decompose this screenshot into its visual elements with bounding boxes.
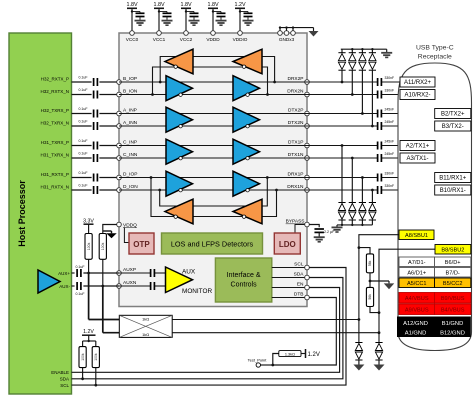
svg-text:OTP: OTP <box>133 240 150 249</box>
svg-text:H32_RXTX_P: H32_RXTX_P <box>41 76 69 81</box>
ESD diode pair top 3 <box>361 49 363 53</box>
svg-text:A_INP: A_INP <box>123 108 137 114</box>
pin B_ION <box>117 92 122 97</box>
ESD diode pair bottom 1 <box>341 220 343 225</box>
wire A3/TX1- line <box>307 157 378 159</box>
resistor R5 1.3k (DTB pullup) <box>279 351 301 357</box>
pin DRX1P <box>305 175 310 180</box>
svg-text:DRX2P: DRX2P <box>288 76 304 82</box>
svg-text:EN: EN <box>297 282 304 288</box>
wire test point to pullup <box>273 354 279 366</box>
wire VDDQ to resistor R2 <box>103 225 117 234</box>
wire crossbar out2 to SBU2 <box>172 332 379 334</box>
buffer host AUX driver (blue) <box>38 270 60 293</box>
svg-text:BYPASS: BYPASS <box>286 219 305 225</box>
pin DRX1N <box>305 188 310 193</box>
svg-text:0.1uF: 0.1uF <box>79 171 88 175</box>
ESD diode pair SBU1 <box>355 342 362 344</box>
wire orange bottom P path <box>151 178 277 217</box>
wire Interface to EN pin <box>272 287 307 289</box>
block LDO <box>274 233 300 254</box>
svg-text:330nF: 330nF <box>385 184 395 188</box>
capacitor internal AUXN <box>150 282 152 290</box>
svg-text:H31_RXTX_P: H31_RXTX_P <box>41 172 69 177</box>
svg-text:245nF: 245nF <box>385 152 395 156</box>
pin DTX1P <box>305 143 310 148</box>
svg-text:B6/D+: B6/D+ <box>445 260 461 266</box>
svg-text:VCC1: VCC1 <box>153 37 166 42</box>
pin EN <box>305 285 310 290</box>
buffer blue forward row4 col2 <box>233 171 260 196</box>
svg-text:330nF: 330nF <box>385 76 395 80</box>
resistor R6 100k (SDA pullup) <box>82 341 84 347</box>
svg-text:B1/GND: B1/GND <box>442 321 464 327</box>
svg-text:B2/TX2+: B2/TX2+ <box>441 112 465 118</box>
svg-text:SCL: SCL <box>60 383 69 388</box>
wire R3/R4 midpoint to ground <box>369 273 371 288</box>
pin DTX2P <box>305 111 310 116</box>
wire DTB loop <box>273 298 337 366</box>
capacitor 0.1uF on A_INP line <box>93 110 95 118</box>
wire EN loop <box>72 288 340 373</box>
wire H31_TXRX_N to C_INN <box>72 157 92 159</box>
svg-text:B9/VBUS: B9/VBUS <box>441 296 465 302</box>
crossbar resistor network 1k/1k (AUX to SBU) <box>119 315 172 337</box>
receptacle pin box B8/SBU2 <box>435 245 471 255</box>
wire R1 to AUXP junction and down to SBU crossbar <box>88 259 90 273</box>
svg-text:245nF: 245nF <box>385 107 395 111</box>
wire B10/RX1- line <box>307 189 378 191</box>
svg-text:A7/D1-: A7/D1- <box>408 260 426 266</box>
block Interface & Controls <box>215 258 271 302</box>
wire ESD bottom 4 to DRX1N <box>371 190 373 203</box>
svg-text:A2/TX1+: A2/TX1+ <box>406 144 430 150</box>
svg-text:B8/SBU2: B8/SBU2 <box>441 247 464 253</box>
redriver chip U1 body <box>119 33 307 307</box>
svg-text:0.1uF: 0.1uF <box>79 119 88 123</box>
svg-text:56k: 56k <box>368 294 372 300</box>
ground under VCC2 cap <box>189 20 200 22</box>
wire internal D_IOP channel <box>119 177 307 179</box>
wire ESD bottom 1 to DTX1P <box>341 146 343 203</box>
ESD diode pair bottom 2 <box>351 220 353 225</box>
capacitor 0.1uF on C_INN line <box>93 154 95 162</box>
capacitor 245nF on A2/TX1+ <box>377 142 379 150</box>
wire internal D_ION channel <box>119 189 307 191</box>
capacitor 0.1uF on B_IOP line <box>93 78 95 86</box>
wire Interface to SDA pin <box>272 277 307 279</box>
pin DTX2N <box>305 124 310 129</box>
capacitor 0.1uF on D_IOP line <box>93 174 95 182</box>
capacitor 245nF on B2/TX2+ <box>377 110 379 118</box>
wire Interface to SCL pin <box>272 267 307 269</box>
svg-text:AUX+: AUX+ <box>58 271 70 276</box>
wire H32_RXTX_P to B_IOP <box>72 81 92 83</box>
wire A10/RX2- line <box>307 94 378 96</box>
svg-text:AUX: AUX <box>182 268 196 275</box>
svg-text:A11/RX2+: A11/RX2+ <box>404 80 432 86</box>
svg-text:1.3kΩ: 1.3kΩ <box>285 353 295 357</box>
wire GNDx3 bus to ground <box>279 27 314 29</box>
pin C_INN <box>117 156 122 161</box>
decoupling capacitor on VDDIO <box>240 11 248 13</box>
receptacle pin box B3/TX2- <box>435 121 471 131</box>
wire orange top N path <box>153 67 268 95</box>
buffer AUX monitor (yellow) <box>166 267 193 293</box>
wire 1.8V rail to VCC2 pin <box>185 8 187 31</box>
svg-text:100k: 100k <box>87 242 91 250</box>
svg-text:B4/VBUS: B4/VBUS <box>441 307 465 313</box>
svg-text:DTB: DTB <box>294 292 304 298</box>
svg-text:H31_TXRX_P: H31_TXRX_P <box>41 140 69 145</box>
svg-text:SDA: SDA <box>294 272 305 278</box>
svg-text:330nF: 330nF <box>385 171 395 175</box>
ESD diode pair bottom 3 <box>361 220 363 225</box>
svg-text:SDA: SDA <box>60 377 69 382</box>
resistor R4 56k (SBU2 to gnd) <box>366 287 373 306</box>
ESD diode pair bottom 4 <box>371 220 373 225</box>
svg-text:A8/SBU1: A8/SBU1 <box>405 233 428 239</box>
block OTP <box>129 233 154 254</box>
GNDx3 pins <box>278 31 283 36</box>
svg-text:0.1uF: 0.1uF <box>79 151 88 155</box>
pin AUXN <box>117 284 122 289</box>
svg-text:LDO: LDO <box>279 240 296 249</box>
wire R6 to SDA <box>82 368 84 379</box>
pin DTB <box>305 295 310 300</box>
wire H31_RXTX_N to D_ION <box>72 189 92 191</box>
svg-text:1kΩ: 1kΩ <box>142 332 149 337</box>
wire H32_TXRX_N to A_INN <box>72 125 92 127</box>
receptacle pin box B5/CC2 <box>435 278 471 288</box>
svg-text:Host Processor: Host Processor <box>17 180 27 247</box>
svg-text:0.1uF: 0.1uF <box>76 265 85 269</box>
svg-text:1.8V: 1.8V <box>207 2 218 8</box>
capacitor internal AUXP <box>150 269 152 277</box>
resistor R1 100k (AUXP pullup) <box>85 234 92 260</box>
wire orange bottom N path <box>160 178 268 207</box>
receptacle pin box A3/TX1- <box>400 153 435 163</box>
svg-text:1.8V: 1.8V <box>126 2 137 8</box>
receptacle pin box A7/D1- <box>399 257 435 267</box>
wire LDO to BYPASS <box>295 225 307 234</box>
svg-text:GNDx3: GNDx3 <box>279 37 295 42</box>
ground under VDDIO cap <box>243 20 254 22</box>
ground for top ESD bank <box>381 52 392 54</box>
ESD diode pair SBU2 <box>375 342 382 344</box>
wire A11/RX2+ line <box>307 81 378 83</box>
wire Interface to DTB pin <box>272 297 307 299</box>
svg-text:DRX1N: DRX1N <box>287 184 304 190</box>
capacitor 2.2uF on BYPASS <box>314 228 324 230</box>
wire SDA loop <box>72 278 343 379</box>
wire SCL loop <box>72 268 347 386</box>
pin A_INN <box>117 124 122 129</box>
ground arrow under SBU2 diode <box>374 365 385 371</box>
receptacle pin box A11/RX2+ <box>400 77 435 87</box>
svg-text:B7/D-: B7/D- <box>445 270 459 276</box>
wire 1.8V rail to VCC1 pin <box>158 8 160 31</box>
svg-text:H32_TXRX_P: H32_TXRX_P <box>41 108 69 113</box>
power rail 1.2V at test point <box>301 353 306 355</box>
capacitor 0.1uF AUX+ <box>76 269 78 277</box>
wire A2/TX1+ line <box>307 145 378 147</box>
wire ESD top 3 to DTX2P <box>361 70 363 113</box>
svg-text:DRX1P: DRX1P <box>288 172 304 178</box>
svg-text:1.8V: 1.8V <box>180 2 191 8</box>
block LOS and LFPS Detectors <box>162 233 263 254</box>
svg-text:VCC2: VCC2 <box>180 37 193 42</box>
receptacle pin box A10/RX2- <box>400 90 435 100</box>
pin VCC2 <box>184 31 189 36</box>
buffer blue forward row2 col2 <box>233 107 260 132</box>
receptacle pin box B9/VBUS <box>435 293 471 304</box>
receptacle pin box A6/D1+ <box>399 268 435 278</box>
svg-text:H32_RXTX_N: H32_RXTX_N <box>40 89 69 94</box>
svg-text:A12/GND: A12/GND <box>403 321 428 327</box>
svg-text:Controls: Controls <box>231 282 258 289</box>
wire H31_TXRX_P to C_INP <box>72 145 92 147</box>
pin D_IOP <box>117 175 122 180</box>
receptacle pin box A8/SBU1 <box>399 230 434 240</box>
buffer blue forward row1 col1 <box>166 76 193 101</box>
svg-text:56k: 56k <box>368 260 372 266</box>
power arrow from VDDQ <box>103 230 112 232</box>
svg-text:B10/RX1-: B10/RX1- <box>440 188 466 194</box>
svg-text:B11/RX1+: B11/RX1+ <box>439 176 467 182</box>
pin D_ION <box>117 188 122 193</box>
capacitor 0.1uF on B_ION line <box>93 91 95 99</box>
resistor R7 100k (SCL pullup) <box>95 341 97 347</box>
wire VDDQ to OTP <box>124 228 129 243</box>
svg-text:DTX2N: DTX2N <box>288 120 304 126</box>
pin BYPASS <box>305 222 310 227</box>
decoupling capacitor on VCC1 <box>159 11 167 13</box>
svg-text:ENABLE: ENABLE <box>51 370 69 375</box>
wire orange top P path <box>160 57 274 83</box>
svg-text:A4/VBUS: A4/VBUS <box>405 296 429 302</box>
wire AUXN internal <box>119 285 151 287</box>
svg-text:VDDQ: VDDQ <box>123 222 137 228</box>
capacitor 330nF on B11/RX1+ <box>377 174 379 182</box>
svg-text:B3/TX2-: B3/TX2- <box>442 124 464 130</box>
pin SDA <box>305 275 310 280</box>
ground for GNDx3 <box>309 31 319 37</box>
buffer orange reverse top 1 <box>165 49 193 74</box>
buffer blue forward row2 col1 <box>166 107 193 132</box>
pin VCC1 <box>157 31 162 36</box>
receptacle pin box B10/RX1- <box>435 185 471 195</box>
ESD diode pair top 1 <box>341 49 343 53</box>
pin DRX2N <box>305 92 310 97</box>
svg-text:B12/GND: B12/GND <box>440 330 465 336</box>
svg-text:100k: 100k <box>101 242 105 250</box>
wire 3.3V to resistor R1 <box>88 224 90 233</box>
pin DTX1N <box>305 156 310 161</box>
receptacle pin box B4/VBUS <box>435 304 471 315</box>
ground arrow for SBU divider <box>384 283 395 289</box>
wire ESD top 1 to DRX2P <box>341 70 343 82</box>
wire H32_RXTX_N to B_ION <box>72 94 92 96</box>
ESD diode pair top 2 <box>351 49 353 53</box>
svg-text:1.2V: 1.2V <box>83 329 94 335</box>
wire H31_RXTX_P to D_IOP <box>72 177 92 179</box>
pin AUXP <box>117 271 122 276</box>
capacitor 330nF on A11/RX2+ <box>377 78 379 86</box>
wire internal B_ION channel <box>119 94 307 96</box>
test point on DTB <box>261 364 273 366</box>
svg-text:A9/VBUS: A9/VBUS <box>405 307 429 313</box>
capacitor 245nF on A3/TX1- <box>377 154 379 162</box>
wire R2 to AUXN junction and down to SBU crossbar <box>102 259 104 286</box>
svg-text:0.1uF: 0.1uF <box>79 107 88 111</box>
wire internal C_INP channel <box>119 145 307 147</box>
capacitor 330nF on B10/RX1- <box>377 186 379 194</box>
wire crossbar out1 to SBU1 <box>172 319 359 321</box>
pin A_INP <box>117 111 122 116</box>
decoupling capacitor on VDDD <box>213 11 221 13</box>
wire SBU1 net <box>359 235 399 343</box>
svg-text:AUX-: AUX- <box>59 284 70 289</box>
svg-text:Receptacle: Receptacle <box>418 54 452 61</box>
svg-text:USB Type-C: USB Type-C <box>416 45 454 52</box>
wire H32_TXRX_P to A_INP <box>72 113 92 115</box>
svg-text:100k: 100k <box>81 353 85 361</box>
svg-text:LOS and LFPS Detectors: LOS and LFPS Detectors <box>171 239 254 248</box>
svg-text:B_IOP: B_IOP <box>123 76 137 82</box>
pin VDDQ <box>117 222 122 227</box>
pin DRX2P <box>305 80 310 85</box>
wire B2/TX2+ line <box>307 113 378 115</box>
buffer orange reverse bottom 2 <box>233 199 262 224</box>
svg-text:330nF: 330nF <box>385 88 395 92</box>
svg-text:D_IOP: D_IOP <box>123 172 137 178</box>
svg-text:AUXN: AUXN <box>123 280 137 286</box>
receptacle pin box A4/VBUS <box>399 293 435 304</box>
svg-text:AUXP: AUXP <box>123 267 136 273</box>
buffer blue forward row4 col1 <box>166 171 193 196</box>
svg-text:DTX2P: DTX2P <box>288 108 303 114</box>
svg-text:A_INN: A_INN <box>123 120 138 126</box>
ESD diode bank bottom bus <box>337 224 372 226</box>
svg-text:A10/RX2-: A10/RX2- <box>404 93 430 99</box>
capacitor 0.1uF on D_ION line <box>93 186 95 194</box>
svg-text:H32_TXRX_N: H32_TXRX_N <box>40 120 69 125</box>
svg-text:DTX1P: DTX1P <box>288 140 303 146</box>
receptacle pin box B2/TX2+ <box>435 109 471 119</box>
resistor R2 100k (AUXN pullup) <box>99 234 106 260</box>
wire 1.8V rail to VCC0 pin <box>131 8 133 31</box>
buffer blue forward row1 col2 <box>233 76 260 101</box>
svg-text:0.1uF: 0.1uF <box>76 292 85 296</box>
buffer blue forward row3 col1 <box>166 139 193 164</box>
svg-text:1.2V: 1.2V <box>234 2 245 8</box>
wire ESD top 4 to DTX2N <box>371 70 373 126</box>
svg-text:0.1uF: 0.1uF <box>79 75 88 79</box>
svg-text:0.1uF: 0.1uF <box>79 88 88 92</box>
receptacle GND pin block <box>397 317 471 338</box>
receptacle pin box B11/RX1+ <box>435 173 471 183</box>
wire host AUX- to AUXN <box>72 285 75 287</box>
ground arrow under SBU1 diode <box>353 365 364 371</box>
svg-text:A5/CC1: A5/CC1 <box>407 281 427 287</box>
svg-text:DRX2N: DRX2N <box>287 89 304 95</box>
svg-text:B_ION: B_ION <box>123 89 138 95</box>
svg-text:D_ION: D_ION <box>123 184 138 190</box>
pin B_IOP <box>117 80 122 85</box>
svg-text:C_INN: C_INN <box>123 152 138 158</box>
decoupling capacitor on VCC0 <box>132 11 140 13</box>
svg-text:DTX1N: DTX1N <box>288 152 304 158</box>
USB Type-C receptacle outline <box>398 63 472 351</box>
pin VCC0 <box>130 31 135 36</box>
wire internal C_INN channel <box>119 157 307 159</box>
svg-text:Interface &: Interface & <box>227 272 261 279</box>
capacitor 0.1uF on A_INN line <box>93 122 95 130</box>
svg-text:A3/TX1-: A3/TX1- <box>406 156 428 162</box>
wire ESD bottom 3 to DRX1P <box>361 178 363 203</box>
decoupling capacitor on VCC2 <box>186 11 194 13</box>
svg-text:VDDIO: VDDIO <box>233 37 248 42</box>
wire 1.2V rail to VDDIO pin <box>239 8 241 31</box>
svg-text:B5/CC2: B5/CC2 <box>443 281 463 287</box>
pin C_INP <box>117 143 122 148</box>
wire B3/TX2- line <box>307 125 378 127</box>
svg-text:245nF: 245nF <box>385 139 395 143</box>
resistor R3 56k (SBU1 to gnd) <box>359 248 370 254</box>
receptacle pin box B7/D- <box>435 268 471 278</box>
svg-text:SCL: SCL <box>294 262 304 268</box>
svg-text:245nF: 245nF <box>385 120 395 124</box>
wire 1.8V rail to VDDD pin <box>212 8 214 31</box>
receptacle pin box A5/CC1 <box>399 278 435 288</box>
wire host AUX+ to AUXP <box>72 272 75 274</box>
pin VDDIO <box>238 31 243 36</box>
ESD diode bank top bus <box>341 48 387 50</box>
svg-text:A6/D1+: A6/D1+ <box>407 270 426 276</box>
svg-text:H31_TXRX_N: H31_TXRX_N <box>40 152 69 157</box>
wire BYPASS to capacitor <box>309 225 319 228</box>
wire ESD bottom 2 to DTX1N <box>351 158 353 203</box>
wire internal A_INN channel <box>119 125 307 127</box>
svg-text:100k: 100k <box>94 353 98 361</box>
receptacle pin box A9/VBUS <box>399 304 435 315</box>
wire B11/RX1+ line <box>307 177 378 179</box>
wire internal A_INP channel <box>119 113 307 115</box>
buffer orange reverse bottom 1 <box>165 199 193 224</box>
buffer blue forward row3 col2 <box>233 139 260 164</box>
svg-text:1.2V: 1.2V <box>308 352 320 358</box>
svg-text:0.1uF: 0.1uF <box>79 183 88 187</box>
svg-text:1kΩ: 1kΩ <box>142 317 149 322</box>
wire AUXP internal <box>119 272 151 274</box>
ESD diode pair top 4 <box>371 49 373 53</box>
svg-text:MONITOR: MONITOR <box>182 288 212 295</box>
ground under BYPASS cap <box>314 236 325 238</box>
wire internal B_IOP channel <box>119 81 307 83</box>
capacitor 0.1uF on C_INP line <box>93 142 95 150</box>
capacitor 330nF on A10/RX2- <box>377 91 379 99</box>
capacitor 245nF on B3/TX2- <box>377 122 379 130</box>
ground under VCC1 cap <box>162 20 173 22</box>
svg-text:C_INP: C_INP <box>123 140 137 146</box>
receptacle pin box B6/D+ <box>435 257 471 267</box>
host processor block U2 <box>9 33 72 394</box>
svg-text:VDDD: VDDD <box>206 37 220 42</box>
svg-text:H31_RXTX_N: H31_RXTX_N <box>40 184 69 189</box>
pin VDDD <box>211 31 216 36</box>
ground for bottom ESD bank <box>332 226 343 228</box>
